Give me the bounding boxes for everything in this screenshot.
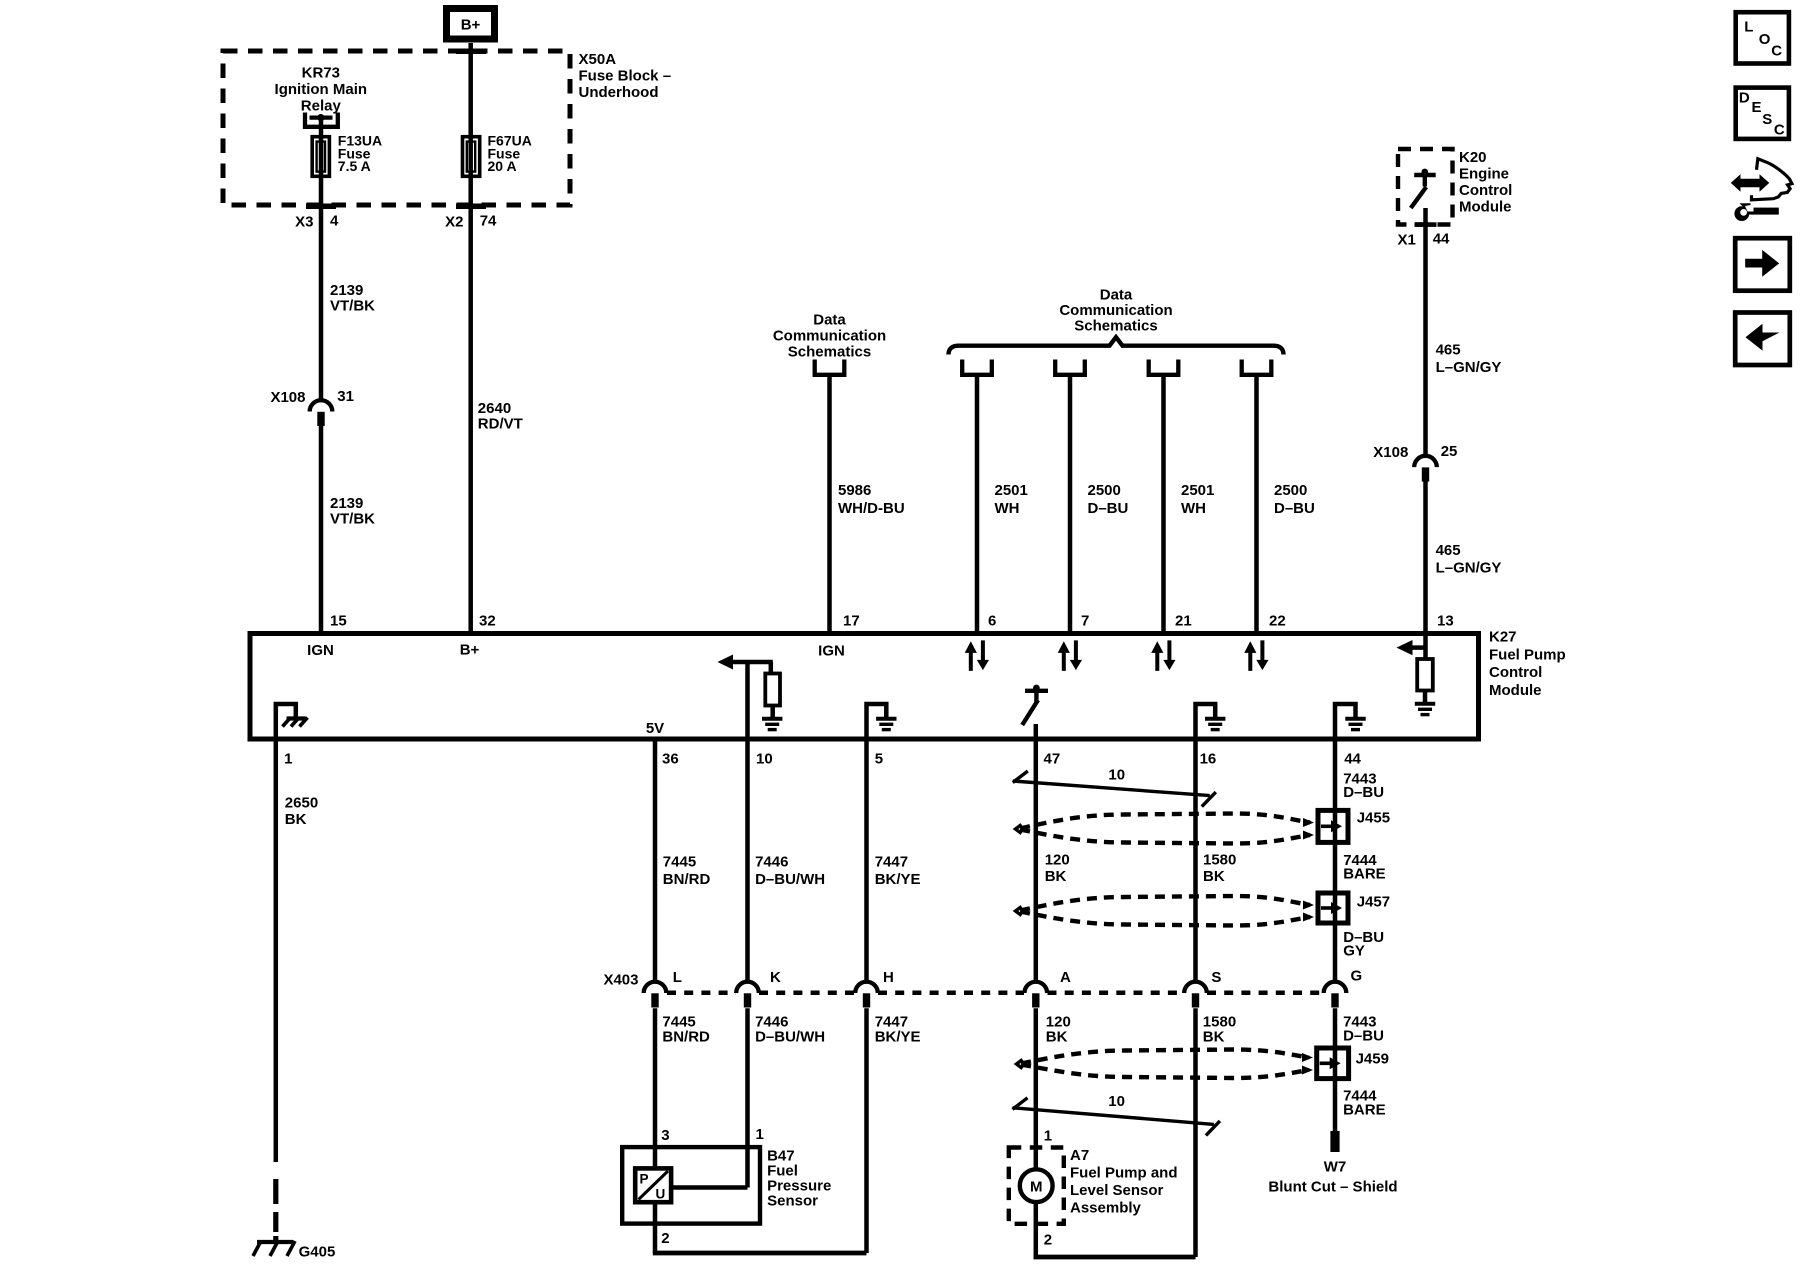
svg-text:U: U xyxy=(656,1187,666,1202)
bidirectional arrows pin 7 xyxy=(1058,640,1082,671)
assembly A7 Fuel Pump and Level Sensor (dashed box) xyxy=(1009,1147,1178,1224)
wire 7444 BARE between J455 and J457 xyxy=(1343,852,1386,883)
svg-text:IGN: IGN xyxy=(307,642,334,659)
shield loop to splice J455 xyxy=(1016,814,1315,844)
pin 32 label B+ xyxy=(460,613,496,659)
svg-text:P: P xyxy=(640,1172,649,1187)
svg-text:74: 74 xyxy=(480,213,497,230)
svg-text:120BK: 120BK xyxy=(1045,852,1070,886)
wire 2500 D-BU to module pin 7 xyxy=(1070,375,1128,634)
connector X108 pin 25 xyxy=(1373,443,1457,482)
internal sense resistor and ground at pin 13 xyxy=(1397,634,1436,715)
svg-text:10: 10 xyxy=(1108,1093,1125,1110)
svg-text:44: 44 xyxy=(1433,231,1450,248)
bidirectional arrows pin 21 xyxy=(1151,640,1175,671)
bidirectional arrows pin 22 xyxy=(1244,640,1268,671)
svg-text:15: 15 xyxy=(330,613,347,630)
svg-text:K: K xyxy=(770,969,781,986)
svg-text:X2: X2 xyxy=(445,214,463,231)
connector X108 pin 31 xyxy=(270,388,354,426)
wire 7445 BN/RD X403-L to B47 pin 3 xyxy=(655,1008,710,1168)
svg-text:D: D xyxy=(1739,89,1750,106)
svg-text:W7: W7 xyxy=(1324,1159,1347,1176)
wire 1580 BK pin 16 to X403-S xyxy=(1196,739,1237,982)
pin 7 xyxy=(1081,613,1089,630)
wire 465 L-GN/GY from K20 to X108 xyxy=(1426,208,1502,456)
svg-text:L: L xyxy=(673,969,682,986)
svg-text:1: 1 xyxy=(284,751,292,768)
icon DESC xyxy=(1736,88,1789,139)
svg-text:C: C xyxy=(1774,122,1785,139)
svg-text:J457: J457 xyxy=(1357,894,1390,911)
svg-text:M: M xyxy=(1030,1179,1043,1196)
svg-text:36: 36 xyxy=(662,751,679,768)
relay KR73 Ignition Main Relay xyxy=(275,64,367,127)
svg-text:10: 10 xyxy=(756,751,773,768)
svg-text:16: 16 xyxy=(1200,751,1217,768)
internal ground at pin 44 xyxy=(1335,704,1366,739)
svg-text:4: 4 xyxy=(330,213,339,230)
svg-text:2: 2 xyxy=(1044,1232,1052,1249)
wire B47 pin 2 to junction with 7447 xyxy=(653,1202,867,1253)
pin 15 label IGN xyxy=(307,613,347,659)
pin 10 label xyxy=(756,751,773,768)
svg-text:L: L xyxy=(1744,19,1753,36)
wire 2650 BK from pin 1 to G405 xyxy=(273,739,318,1242)
splice J455 xyxy=(1318,809,1390,842)
P/U transducer symbol inside B47 xyxy=(635,1168,671,1202)
svg-text:IGN: IGN xyxy=(818,643,845,660)
X50A Fuse Block - Underhood (dashed enclosure) xyxy=(223,49,671,210)
svg-text:31: 31 xyxy=(337,388,354,405)
pin 44 label xyxy=(1344,751,1361,768)
svg-text:120BK: 120BK xyxy=(1046,1014,1071,1046)
shield loop to splice J457 xyxy=(1016,896,1315,926)
wire 7443 D-BU X403-G to splice J459 xyxy=(1335,1008,1384,1131)
wire 5986 WH/D-BU to module pin 17 xyxy=(830,375,905,634)
svg-text:H: H xyxy=(883,969,894,986)
node B+ (battery feed box) xyxy=(447,9,495,40)
connector X3 pin 4 label xyxy=(295,213,339,231)
pin 1 label A7 xyxy=(1044,1128,1052,1145)
sensor B47 Fuel Pressure Sensor (box) xyxy=(622,1147,831,1224)
svg-text:B+: B+ xyxy=(461,17,481,34)
wire 465 L-GN/GY from X108 to module pin 13 xyxy=(1426,481,1502,633)
wire 120 BK pin 47 to X403-A xyxy=(1036,739,1070,982)
svg-text:17: 17 xyxy=(843,613,860,630)
svg-text:G405: G405 xyxy=(299,1244,336,1261)
svg-text:47: 47 xyxy=(1044,751,1061,768)
wire 2640 RD/VT from fuse F67UA to module pin 32 xyxy=(471,178,523,634)
svg-text:S: S xyxy=(1211,969,1221,986)
pin 16 label xyxy=(1200,751,1217,768)
internal wire B47 pin 1 to transducer xyxy=(671,1185,747,1190)
svg-text:X403: X403 xyxy=(603,972,638,989)
connector X403 terminal S xyxy=(1184,969,1221,1008)
switch inside K20 xyxy=(1411,169,1436,208)
svg-text:J455: J455 xyxy=(1357,809,1390,826)
module K20 Engine Control Module (dashed box) xyxy=(1398,149,1512,225)
svg-text:X108: X108 xyxy=(1373,444,1408,461)
pin 47 label xyxy=(1044,751,1061,768)
icon connector-repair (double arrow, outline, wrench) xyxy=(1731,159,1792,221)
module K27 Fuel Pump Control Module xyxy=(250,629,1566,739)
svg-text:44: 44 xyxy=(1344,751,1361,768)
wire 7447 BK/YE X403-H to B47 pin 2 junction xyxy=(867,1008,921,1253)
fuel pump motor M xyxy=(1020,1169,1053,1202)
internal ground at pin 16 xyxy=(1196,704,1226,739)
svg-text:13: 13 xyxy=(1437,613,1454,630)
wire relay to F13UA xyxy=(319,119,324,136)
connector X1 pin 44 label xyxy=(1398,222,1451,248)
svg-text:2: 2 xyxy=(661,1230,669,1247)
connector X403 terminal K xyxy=(736,969,781,1008)
svg-text:J459: J459 xyxy=(1356,1050,1389,1067)
wire D-BU GY below J457 xyxy=(1343,929,1384,959)
internal ground at pin 5 xyxy=(867,704,897,739)
wire 2139 VT/BK from fuse block to X108 xyxy=(321,178,375,401)
pin 6 xyxy=(988,613,996,630)
bidirectional arrows pin 6 xyxy=(965,640,989,671)
svg-text:5V: 5V xyxy=(646,720,664,737)
svg-text:6: 6 xyxy=(988,613,996,630)
svg-text:1: 1 xyxy=(1044,1128,1052,1145)
off-page reference Data Communication Schematics (pin 17) xyxy=(773,312,886,375)
pin 21 xyxy=(1175,613,1192,630)
svg-text:X1: X1 xyxy=(1398,231,1416,248)
connector X403 terminal L xyxy=(644,969,682,1008)
connector X403 terminal A xyxy=(1025,969,1072,1008)
fuse F13UA 7.5 A xyxy=(312,133,382,178)
svg-text:10: 10 xyxy=(1108,767,1125,784)
svg-text:B+: B+ xyxy=(460,642,480,659)
connector X403 (in-line, pins L K H A S G) xyxy=(603,972,1323,993)
pin 13 xyxy=(1437,613,1454,630)
svg-text:O: O xyxy=(1759,31,1771,48)
wire 2500 D-BU to module pin 22 xyxy=(1257,375,1315,634)
connector X2 pin 74 label xyxy=(445,213,497,231)
ground G405 xyxy=(253,1241,335,1261)
svg-text:Blunt Cut – Shield: Blunt Cut – Shield xyxy=(1268,1179,1397,1196)
pin 5 label xyxy=(875,751,883,768)
pin 1 label xyxy=(284,751,292,768)
icon forward arrow xyxy=(1735,238,1790,291)
connector X403 terminal G xyxy=(1324,968,1362,1008)
svg-text:G: G xyxy=(1351,968,1363,985)
internal chassis ground at pin 1 xyxy=(276,704,308,739)
wire 2501 WH to module pin 6 xyxy=(977,375,1028,634)
icon LOC xyxy=(1736,12,1789,63)
wire 2501 WH to module pin 21 xyxy=(1164,375,1215,634)
pin 1 label B47 xyxy=(756,1126,764,1143)
wire 7444 BARE below J459 to blunt cut xyxy=(1343,1087,1386,1118)
wire 2139 VT/BK from X108 to module pin 15 xyxy=(321,426,375,634)
internal 5V supply label at pin 36 xyxy=(646,720,664,737)
wire 7445 BN/RD pin 36 to X403-L xyxy=(655,739,710,982)
wire 120 BK X403-A to fuel pump xyxy=(1036,1008,1071,1169)
svg-text:A: A xyxy=(1060,969,1071,986)
shield loop to splice J459 xyxy=(1017,1050,1314,1079)
wire 7443 D-BU pin 44 to splice J455 xyxy=(1335,739,1384,982)
wire 7447 BK/YE pin 5 to X403-H xyxy=(867,739,921,982)
svg-text:3: 3 xyxy=(661,1127,669,1144)
internal pull-up resistor and ground at pin 10 xyxy=(718,655,783,740)
svg-text:22: 22 xyxy=(1269,613,1286,630)
wire 7446 D-BU/WH pin 10 to X403-K xyxy=(748,739,826,982)
icon back arrow xyxy=(1735,313,1790,366)
svg-text:1: 1 xyxy=(756,1126,764,1143)
wire A7 pin 2 to junction with 1580 xyxy=(1034,1202,1196,1257)
pin 22 xyxy=(1269,613,1286,630)
connector X403 terminal H xyxy=(855,969,894,1008)
svg-text:32: 32 xyxy=(479,613,496,630)
splice J457 xyxy=(1318,893,1390,923)
internal switch at pin 47 xyxy=(1022,685,1048,739)
svg-text:5: 5 xyxy=(875,751,883,768)
wire 7446 D-BU/WH X403-K to B47 pin 1 xyxy=(748,1008,826,1187)
pin 3 label B47 xyxy=(661,1127,669,1144)
svg-text:7: 7 xyxy=(1081,613,1089,630)
conductor count marker 10 (upper harness) xyxy=(1013,767,1216,807)
svg-text:X108: X108 xyxy=(270,389,305,406)
wire 1580 BK X403-S to fuel pump return xyxy=(1196,1008,1237,1257)
svg-text:21: 21 xyxy=(1175,613,1192,630)
svg-text:S: S xyxy=(1762,111,1772,128)
fuse F67UA 20 A xyxy=(463,43,532,178)
svg-text:25: 25 xyxy=(1441,443,1458,460)
pin 17 label IGN xyxy=(818,613,860,660)
svg-text:X3: X3 xyxy=(295,214,313,231)
conductor count marker 10 (lower harness) xyxy=(1013,1093,1220,1135)
pin 36 label xyxy=(662,751,679,768)
blunt cut W7 - shield xyxy=(1268,1131,1397,1196)
splice J459 xyxy=(1317,1048,1389,1079)
off-page reference Data Communication Schematics (data bus pins) xyxy=(949,286,1284,375)
svg-text:C: C xyxy=(1771,43,1782,60)
svg-text:E: E xyxy=(1752,99,1762,116)
